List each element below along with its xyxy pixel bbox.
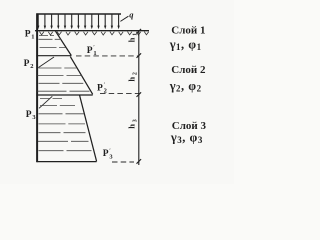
layer 1/2 boundary solid line xyxy=(36,55,71,57)
svg-text:2: 2 xyxy=(133,72,139,75)
ground surface line xyxy=(35,30,149,32)
pressure diagram layer 1 diagonal xyxy=(56,31,72,55)
label h3 xyxy=(127,119,139,129)
svg-text:P: P xyxy=(24,59,30,69)
svg-text:1: 1 xyxy=(31,33,34,40)
svg-text:P: P xyxy=(87,46,93,56)
layer 3 hatch lines xyxy=(38,98,92,150)
svg-text:P: P xyxy=(25,30,31,40)
layer 2/3 boundary solid line xyxy=(36,94,92,96)
text layer 3 title xyxy=(172,120,207,132)
label P3 xyxy=(26,110,37,121)
label P1prime xyxy=(87,45,97,57)
svg-text:h: h xyxy=(127,124,137,129)
layer 1/2 boundary dashed extension xyxy=(76,55,139,57)
svg-text:Слой 2: Слой 2 xyxy=(171,64,206,76)
layer 1 hatch lines xyxy=(39,36,67,48)
leader line to q label xyxy=(120,16,128,21)
svg-text:h: h xyxy=(127,37,137,42)
svg-text:h: h xyxy=(127,77,137,82)
svg-text:2: 2 xyxy=(104,88,107,95)
label P2prime xyxy=(97,83,107,95)
dimension tick at bottom xyxy=(137,159,142,164)
ground hatch marks xyxy=(40,32,149,35)
surcharge load arrows xyxy=(37,14,120,29)
pressure diagram bottom line xyxy=(36,161,96,163)
svg-text:3: 3 xyxy=(133,119,139,122)
layer 2 hatch lines xyxy=(38,68,90,91)
text layer 2 properties xyxy=(169,79,202,94)
svg-text:P: P xyxy=(26,110,32,120)
retaining wall xyxy=(36,13,38,162)
dimension tick at ground xyxy=(137,29,142,34)
surcharge load q top line xyxy=(38,13,121,15)
label P2 xyxy=(24,59,34,70)
leader line from P2 xyxy=(38,57,54,68)
label P3prime xyxy=(103,148,114,160)
pressure diagram layer 3 diagonal xyxy=(80,95,97,161)
text layer 1 title xyxy=(171,24,205,36)
text layer 1 properties xyxy=(169,37,202,52)
bottom dashed extension xyxy=(112,161,134,163)
dimension line h xyxy=(138,31,140,165)
svg-text:P: P xyxy=(97,83,103,93)
dimension tick at boundary 1/2 xyxy=(137,53,142,58)
text layer 2 title xyxy=(171,64,206,76)
svg-text:1: 1 xyxy=(133,33,139,36)
label q xyxy=(129,10,134,20)
svg-text:1: 1 xyxy=(93,50,96,57)
text layer 3 properties xyxy=(170,130,203,145)
label h1 xyxy=(127,33,139,43)
layer 2/3 boundary dashed extension xyxy=(100,93,139,95)
svg-text:q: q xyxy=(129,10,134,20)
pressure diagram layer 2 diagonal xyxy=(70,57,92,95)
label P1 xyxy=(25,30,35,41)
svg-text:P: P xyxy=(103,149,109,159)
label h2 xyxy=(127,72,139,82)
leader line from P3 xyxy=(39,96,52,108)
svg-text:Слой 1: Слой 1 xyxy=(171,24,205,36)
svg-text:2: 2 xyxy=(30,63,33,70)
dimension tick at boundary 2/3 xyxy=(137,92,142,97)
